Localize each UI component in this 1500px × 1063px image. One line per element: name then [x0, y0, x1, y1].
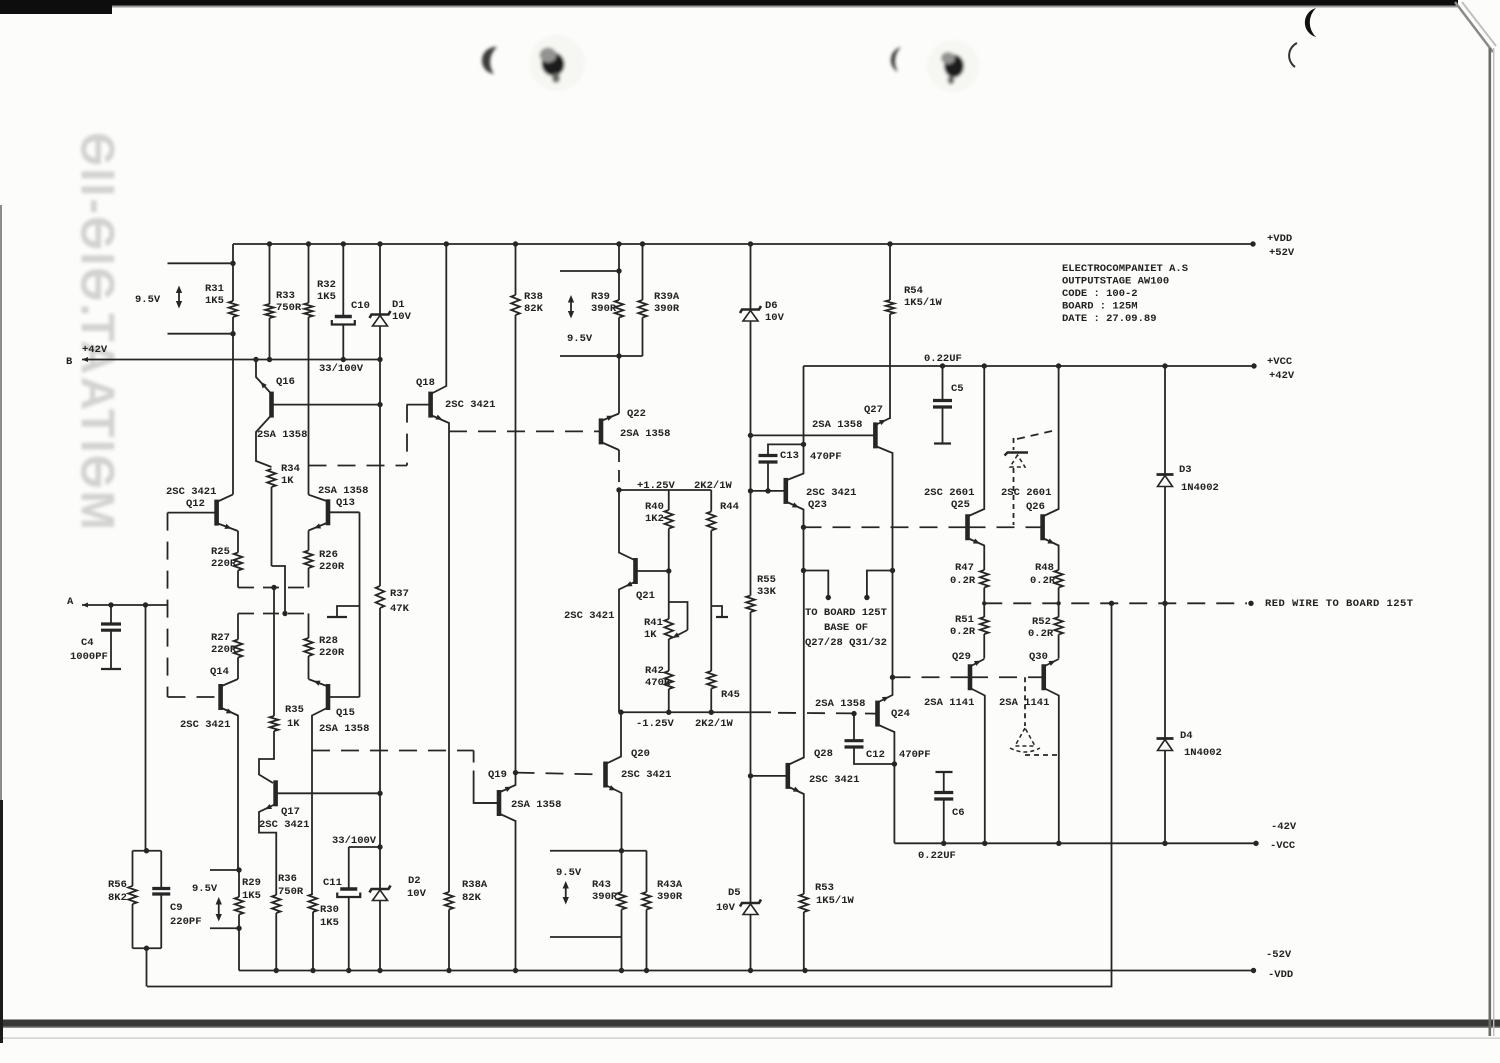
- transistor Q17: [259, 780, 380, 895]
- transistor Q13 label: [318, 485, 368, 509]
- svg-text:2SC 3421: 2SC 3421: [259, 819, 309, 831]
- svg-text:R42: R42: [645, 665, 664, 677]
- svg-text:2SA 1358: 2SA 1358: [620, 428, 670, 440]
- resistor R32: [304, 244, 313, 495]
- node -1.25V label: [636, 718, 734, 730]
- svg-text:82K: 82K: [462, 892, 482, 904]
- scan artifact: black bar along top edge: [0, 0, 1458, 14]
- scan artifact: hole punch mark middle: [927, 40, 979, 92]
- svg-text:R56: R56: [108, 879, 127, 891]
- svg-text:1K5: 1K5: [317, 291, 336, 303]
- svg-text:9.5V: 9.5V: [192, 883, 218, 895]
- svg-text:R34: R34: [281, 463, 300, 475]
- node B +42V input wire: [82, 357, 383, 362]
- svg-text:33K: 33K: [757, 586, 777, 598]
- scan artifact: dark band near bottom edge: [0, 1020, 1500, 1039]
- capacitor C4: [101, 602, 121, 669]
- transistor Q15: [309, 678, 360, 750]
- svg-text:Q18: Q18: [416, 377, 435, 389]
- svg-text:220R: 220R: [211, 644, 237, 656]
- svg-text:-42V: -42V: [1271, 821, 1297, 833]
- svg-text:10V: 10V: [392, 311, 412, 323]
- svg-text:1K: 1K: [287, 718, 300, 730]
- resistor R36 label: [278, 873, 304, 898]
- svg-text:47K: 47K: [390, 603, 410, 615]
- zener diode D1 label: [392, 299, 412, 323]
- svg-text:1N4002: 1N4002: [1181, 482, 1219, 494]
- transistor Q30: [1044, 658, 1059, 843]
- svg-text:390R: 390R: [657, 891, 683, 903]
- diode D4 label: [1180, 730, 1222, 759]
- wire dashed Q29 base to Q30 base: [970, 676, 1044, 678]
- resistor R53: [800, 894, 809, 971]
- svg-text:390R: 390R: [654, 303, 680, 315]
- resistor R52: [1054, 603, 1063, 658]
- scan artifact: page corner fold and right edge line: [1455, 2, 1496, 1036]
- resistor R39: [615, 244, 624, 414]
- transistor Q26 label: [1001, 487, 1051, 513]
- svg-text:R38A: R38A: [462, 879, 488, 891]
- wire bias column D1-R37-D2: [377, 360, 382, 971]
- svg-text:+42V: +42V: [1269, 370, 1295, 382]
- wire dashed Q13 collector to Q18 base: [309, 405, 408, 466]
- svg-text:R43A: R43A: [657, 879, 683, 891]
- resistor R48 label: [1030, 562, 1056, 587]
- svg-text:Q20: Q20: [631, 748, 650, 760]
- resistor R33 label: [276, 290, 302, 314]
- svg-text:R39A: R39A: [654, 291, 680, 303]
- svg-text:R38: R38: [524, 291, 543, 303]
- svg-text:+42V: +42V: [82, 344, 108, 356]
- svg-text:D3: D3: [1179, 464, 1192, 476]
- svg-text:Q25: Q25: [951, 499, 970, 511]
- trimmer R41: [664, 571, 687, 671]
- scan artifact: hole punch mark left: [529, 35, 585, 91]
- resistor R54 label: [904, 285, 943, 309]
- transistor Q29 label: [924, 651, 974, 709]
- svg-text:2SA 1141: 2SA 1141: [924, 697, 974, 709]
- resistor R25 label: [211, 546, 237, 570]
- resistor R38 label: [524, 291, 544, 315]
- zener diode D6 label: [765, 300, 785, 324]
- svg-text:R33: R33: [276, 290, 295, 302]
- svg-text:R25: R25: [211, 546, 230, 558]
- wire Q18 emitter to R38A: [448, 431, 450, 892]
- svg-text:9.5V: 9.5V: [567, 333, 593, 345]
- svg-text:R44: R44: [720, 501, 739, 513]
- svg-text:1N4002: 1N4002: [1184, 747, 1222, 759]
- svg-text:A: A: [67, 596, 74, 608]
- svg-text:1K5/1W: 1K5/1W: [904, 297, 943, 309]
- wire +VDD +52V top rail: [233, 241, 1256, 246]
- resistor R55 label: [757, 574, 777, 598]
- wire dashed Q25 base to Q26 base: [968, 526, 1043, 528]
- resistor R33: [265, 244, 274, 360]
- resistor R55: [746, 596, 755, 779]
- node +VCC label: [1267, 356, 1295, 382]
- resistor R38A label: [462, 879, 488, 904]
- resistor R25: [234, 531, 243, 588]
- svg-text:Q22: Q22: [627, 408, 646, 420]
- transistor Q17 label: [259, 806, 309, 831]
- capacitor C9 label: [170, 902, 202, 928]
- svg-text:R51: R51: [955, 614, 974, 626]
- svg-text:390R: 390R: [591, 303, 617, 315]
- svg-text:1K5: 1K5: [205, 295, 224, 307]
- svg-text:BASE OF: BASE OF: [824, 622, 868, 634]
- transistor Q16: [256, 360, 380, 468]
- svg-text:+VCC: +VCC: [1267, 356, 1293, 368]
- scan artifact: crescent mark left: [482, 47, 497, 74]
- resistor R39A label: [654, 291, 680, 315]
- zener diode D5: [740, 776, 761, 971]
- wire red wire output dashed: [982, 601, 1254, 606]
- resistor R38: [511, 244, 520, 773]
- svg-text:2SA 1358: 2SA 1358: [812, 419, 862, 431]
- svg-text:1K5/1W: 1K5/1W: [816, 895, 855, 907]
- svg-text:-VDD: -VDD: [1268, 969, 1293, 981]
- svg-text:Q19: Q19: [488, 769, 507, 781]
- svg-text:Q28: Q28: [814, 748, 833, 760]
- svg-text:R29: R29: [242, 877, 261, 889]
- svg-text:R39: R39: [591, 291, 610, 303]
- svg-text:470PF: 470PF: [810, 451, 842, 463]
- svg-text:33/100V: 33/100V: [332, 835, 377, 847]
- svg-text:10V: 10V: [407, 888, 427, 900]
- resistor R27: [234, 614, 243, 680]
- svg-text:C11: C11: [323, 877, 342, 889]
- svg-text:C5: C5: [951, 383, 964, 395]
- resistor R27 label: [211, 632, 237, 656]
- measurement bracket 9.5V at R39: [560, 271, 643, 356]
- resistor R40 label: [645, 501, 664, 525]
- svg-text:2K2/1W: 2K2/1W: [695, 718, 734, 730]
- resistor R45: [707, 671, 716, 712]
- svg-text:Q17: Q17: [281, 806, 300, 818]
- capacitor C5: [933, 366, 952, 444]
- svg-text:B: B: [66, 356, 73, 368]
- resistor R37: [376, 586, 385, 608]
- resistor R34 label: [281, 463, 300, 487]
- capacitor C13 label: [780, 450, 842, 463]
- transistor Q14 label: [180, 666, 230, 731]
- svg-text:750R: 750R: [278, 886, 304, 898]
- resistor R38A: [445, 892, 454, 971]
- svg-text:2SC 2601: 2SC 2601: [924, 487, 974, 499]
- transistor Q27: [751, 417, 893, 570]
- resistor R52 label: [1028, 616, 1054, 640]
- wire bottom -VDD -52V rail: [239, 968, 1256, 973]
- svg-text:Q23: Q23: [808, 499, 827, 511]
- transistor Q24: [851, 571, 897, 844]
- svg-text:R45: R45: [721, 689, 740, 701]
- resistor R40: [664, 490, 673, 574]
- transistor Q29: [970, 658, 985, 843]
- transistor Q12 label: [166, 486, 216, 510]
- transistor Q14: [168, 679, 239, 870]
- node -VDD label: [1266, 949, 1293, 981]
- svg-text:750R: 750R: [276, 302, 302, 314]
- zener diode D6: [740, 244, 761, 435]
- svg-text:2K2/1W: 2K2/1W: [694, 480, 733, 492]
- svg-text:R55: R55: [757, 574, 776, 586]
- svg-text:D4: D4: [1180, 730, 1193, 742]
- title block text: [1062, 263, 1188, 325]
- resistor R30: [309, 894, 318, 971]
- svg-text:R47: R47: [955, 562, 974, 574]
- svg-text:9.5V: 9.5V: [135, 294, 161, 306]
- resistor R35 label: [285, 704, 304, 730]
- capacitor C12 name and value label: [866, 749, 931, 761]
- transistor Q22: [449, 413, 619, 490]
- svg-text:R53: R53: [815, 882, 834, 894]
- svg-text:+1.25V: +1.25V: [637, 480, 676, 492]
- svg-text:470R: 470R: [645, 677, 671, 689]
- transistor Q22 label: [620, 408, 670, 440]
- transistor Q27 label: [812, 404, 883, 431]
- transistor Q23: [751, 366, 807, 573]
- zener diode D2 label: [407, 875, 427, 900]
- wire Q23 emitter to output bases dashed: [804, 526, 968, 528]
- svg-text:220R: 220R: [319, 647, 345, 659]
- resistor R53 label: [815, 882, 855, 907]
- wire -VCC -42V rail: [895, 841, 1259, 846]
- svg-text:C12: C12: [866, 749, 885, 761]
- scan artifact: crescent mark top right: [1305, 8, 1316, 37]
- transistor Q28: [751, 571, 804, 895]
- resistor R56 label: [108, 879, 127, 904]
- svg-text:C9: C9: [170, 902, 183, 914]
- resistor R43A: [642, 851, 651, 971]
- transistor Q24 label: [815, 698, 910, 720]
- node +1.25V wire: [616, 487, 711, 492]
- resistor R42: [664, 671, 673, 712]
- transistor Q25 label: [924, 487, 974, 511]
- svg-text:1K: 1K: [281, 475, 294, 487]
- svg-text:1K5: 1K5: [242, 890, 261, 902]
- wire dashed Q15 collector to Q19 base: [312, 751, 499, 804]
- svg-text:R41: R41: [644, 617, 663, 629]
- svg-text:33/100V: 33/100V: [319, 363, 364, 375]
- wire output feedback rail to board bottom: [147, 603, 1112, 986]
- transistor Q18 label: [416, 377, 495, 411]
- wire cross-coupling dashed upper: [238, 585, 309, 590]
- svg-text:D6: D6: [765, 300, 778, 312]
- diode D4: [1157, 603, 1174, 843]
- svg-text:0.22UF: 0.22UF: [924, 353, 962, 365]
- resistor R31: [229, 244, 238, 494]
- svg-text:R54: R54: [904, 285, 923, 297]
- resistor R26 label: [319, 549, 345, 573]
- svg-text:D1: D1: [392, 299, 405, 311]
- node -1.25V wire: [618, 710, 877, 715]
- svg-text:R40: R40: [645, 501, 664, 513]
- svg-text:D2: D2: [408, 875, 421, 887]
- transistor Q15 label: [319, 707, 369, 735]
- svg-text:0.2R: 0.2R: [950, 626, 976, 638]
- svg-text:Q21: Q21: [636, 590, 655, 602]
- svg-text:R28: R28: [319, 635, 338, 647]
- measurement bracket 9.5V at R31: [168, 261, 236, 337]
- wire +VCC +42V rail: [804, 363, 1257, 368]
- svg-text:8K2: 8K2: [108, 892, 127, 904]
- svg-text:1K: 1K: [644, 629, 657, 641]
- svg-text:-1.25V: -1.25V: [636, 718, 675, 730]
- svg-text:2SC 3421: 2SC 3421: [806, 487, 856, 499]
- svg-text:R36: R36: [278, 873, 297, 885]
- resistor R43 label: [592, 879, 618, 903]
- svg-text:RED WIRE TO BOARD 125T: RED WIRE TO BOARD 125T: [1265, 598, 1414, 610]
- resistor R43A label: [657, 879, 683, 903]
- resistor R29 label: [242, 877, 261, 902]
- svg-text:2SA 1358: 2SA 1358: [815, 698, 865, 710]
- svg-text:Q14: Q14: [210, 666, 229, 678]
- wire A to feedback node: [145, 605, 147, 851]
- resistor R37 label: [390, 588, 410, 615]
- trimmer R41 label: [644, 617, 663, 641]
- svg-text:0.22UF: 0.22UF: [918, 850, 956, 862]
- capacitor C6: [934, 772, 953, 843]
- thermal sense diode dashed lower: [1010, 677, 1059, 755]
- svg-text:Q15: Q15: [336, 707, 355, 719]
- resistor R28: [304, 614, 313, 680]
- resistor R28 label: [319, 635, 345, 659]
- node A input wire: [82, 602, 168, 607]
- resistor R31 label: [205, 283, 224, 307]
- wire Q15 collector to R30: [311, 751, 313, 895]
- transistor Q16 label: [257, 376, 307, 441]
- wire bias column to R55: [748, 433, 753, 596]
- transistor Q25: [968, 366, 985, 570]
- svg-text:C10: C10: [351, 300, 370, 312]
- zener diode D5 label: [716, 887, 741, 914]
- capacitor C10: [332, 244, 355, 360]
- transistor Q21 label: [564, 590, 655, 622]
- wire Q13 base to Q15 base: [327, 512, 360, 697]
- resistor R54: [886, 244, 895, 419]
- svg-text:TO BOARD 125T: TO BOARD 125T: [805, 607, 887, 619]
- svg-text:470PF: 470PF: [899, 749, 931, 761]
- resistor R51: [980, 603, 989, 658]
- svg-text:Q29: Q29: [952, 651, 971, 663]
- svg-text:82K: 82K: [524, 303, 544, 315]
- transistor Q20 label: [621, 748, 671, 781]
- svg-text:Q24: Q24: [891, 708, 910, 720]
- svg-text:2SC 2601: 2SC 2601: [1001, 487, 1051, 499]
- transistor Q12: [168, 494, 239, 531]
- node B label: [66, 344, 108, 368]
- svg-text:Q27: Q27: [864, 404, 883, 416]
- wire dashed input bus: [167, 513, 169, 697]
- svg-text:R35: R35: [285, 704, 304, 716]
- scan artifact: thin bracket mark right: [1289, 43, 1297, 67]
- svg-text:220R: 220R: [319, 561, 345, 573]
- svg-text:Q16: Q16: [276, 376, 295, 388]
- svg-text:2SA 1358: 2SA 1358: [319, 723, 369, 735]
- transistor Q21: [619, 490, 669, 712]
- transistor Q28 name label: [814, 748, 833, 760]
- capacitor C11: [337, 847, 380, 971]
- resistor R48: [1054, 570, 1063, 603]
- resistor R43: [617, 848, 626, 970]
- svg-text:OUTPUTSTAGE AW100: OUTPUTSTAGE AW100: [1062, 276, 1169, 288]
- measurement bracket 9.5V at R43: [550, 851, 647, 937]
- resistor R34: [267, 469, 285, 614]
- svg-text:0.2R: 0.2R: [1028, 628, 1054, 640]
- svg-text:R27: R27: [211, 632, 230, 644]
- svg-text:1K2: 1K2: [645, 513, 664, 525]
- transistor Q20: [517, 712, 622, 892]
- node -VCC label: [1270, 821, 1297, 852]
- capacitor C13: [759, 444, 804, 493]
- thermal sense diode dashed upper: [1005, 431, 1053, 525]
- transistor Q13: [309, 495, 360, 531]
- svg-text:220PF: 220PF: [170, 916, 202, 928]
- svg-text:2SC 3421: 2SC 3421: [621, 769, 671, 781]
- node +VDD label: [1267, 233, 1295, 259]
- svg-text:0.2R: 0.2R: [950, 575, 976, 587]
- svg-text:220R: 220R: [211, 558, 237, 570]
- transistor Q26: [1043, 366, 1059, 570]
- svg-text:R32: R32: [317, 279, 336, 291]
- transistor Q23 label: [806, 487, 856, 511]
- svg-text:-52V: -52V: [1266, 949, 1292, 961]
- svg-text:+52V: +52V: [1269, 247, 1295, 259]
- svg-text:10V: 10V: [765, 312, 785, 324]
- svg-text:C4: C4: [81, 637, 94, 649]
- resistor R44: [707, 490, 728, 671]
- transistor Q18: [407, 244, 450, 431]
- wire cross-coupling dashed lower: [238, 611, 309, 616]
- diode D3 label: [1179, 464, 1219, 494]
- svg-text:2SC 3421: 2SC 3421: [180, 719, 230, 731]
- resistor R30 label: [320, 904, 339, 929]
- svg-text:R30: R30: [320, 904, 339, 916]
- resistor R42 label: [645, 665, 671, 689]
- svg-text:2SA 1358: 2SA 1358: [257, 429, 307, 441]
- svg-text:D5: D5: [728, 887, 741, 899]
- resistor R39A: [638, 244, 647, 356]
- svg-text:R52: R52: [1032, 616, 1051, 628]
- resistor R35: [259, 588, 278, 784]
- wire feedback to bottom rail: [146, 948, 148, 986]
- svg-text:2SC 3421: 2SC 3421: [809, 774, 859, 786]
- svg-text:0.2R: 0.2R: [1030, 575, 1056, 587]
- resistor R51 label: [950, 614, 976, 638]
- zener diode D1: [370, 244, 391, 360]
- diode D3: [1157, 366, 1174, 603]
- resistor R36: [272, 895, 281, 971]
- zener diode D2: [370, 886, 391, 893]
- svg-text:C6: C6: [952, 807, 965, 819]
- resistor R47 label: [950, 562, 976, 587]
- svg-text:R26: R26: [319, 549, 338, 561]
- svg-text:R48: R48: [1035, 562, 1054, 574]
- measurement bracket 9.5V at R29: [210, 867, 242, 931]
- svg-text:C13: C13: [780, 450, 799, 462]
- svg-text:390R: 390R: [592, 891, 618, 903]
- resistor R56: [128, 848, 161, 951]
- svg-text:2SA 1358: 2SA 1358: [318, 485, 368, 497]
- svg-text:BOARD : 125M: BOARD : 125M: [1062, 301, 1138, 313]
- resistor R26: [304, 531, 313, 588]
- svg-text:2SA 1358: 2SA 1358: [511, 799, 561, 811]
- svg-text:1000PF: 1000PF: [70, 651, 108, 663]
- node to-board text: [805, 607, 887, 649]
- scan artifact: dark strip on left edge: [0, 205, 3, 1043]
- svg-text:Q26: Q26: [1026, 501, 1045, 513]
- node to-board stubs: [804, 568, 896, 600]
